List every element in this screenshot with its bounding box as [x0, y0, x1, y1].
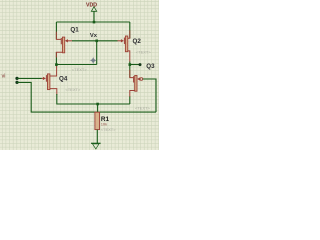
junction dot at VDD/rail [93, 21, 96, 24]
Q4 gate bar [46, 75, 47, 82]
wire: vi to Q4 gate [17, 77, 42, 79]
transistor Q1 [56, 32, 72, 58]
svg-text:vi: vi [2, 74, 6, 80]
svg-text:<TEXT>: <TEXT> [101, 127, 117, 132]
wire: R1 bottom lead [96, 130, 98, 144]
Q4 drain lead [50, 66, 57, 76]
wire: Q2 source down to Q3 drain [129, 62, 131, 78]
Q4 source lead [50, 89, 57, 95]
transistor Q2 [117, 30, 129, 61]
Q2 source lead [128, 51, 130, 62]
wire: stub to net dot [130, 64, 140, 66]
Q1 source lead [56, 52, 62, 57]
svg-text:Q4: Q4 [59, 75, 68, 82]
Q4 gate pin line [42, 77, 44, 79]
Q2 gate pin line [117, 40, 121, 42]
wire: right rail down to Q2 drain [129, 22, 131, 38]
svg-text:<TEXT>: <TEXT> [135, 106, 151, 111]
voltage probe star at Vx stem [90, 57, 97, 65]
wire: Q3 source down to bottom rail [129, 97, 131, 105]
Q1 channel bar [62, 37, 64, 53]
transistor Q4 [42, 66, 57, 95]
Q1 drain lead [56, 32, 61, 40]
wire: lower input branch [17, 82, 156, 112]
wire: top VDD rail [56, 21, 129, 23]
Q3 gate bubble [140, 78, 143, 81]
svg-text:<TEXT>: <TEXT> [136, 49, 152, 54]
wire: Q3 gate loop right/down/left [143, 79, 156, 112]
svg-text:Q1: Q1 [70, 26, 79, 33]
Q4 channel bar [48, 74, 50, 90]
wire: Vx stem down [96, 41, 98, 65]
power symbol VDD [91, 7, 96, 12]
input end dot upper [15, 77, 18, 80]
wire: Q1 source down to node A [55, 52, 57, 65]
Q1 thin bar [61, 38, 62, 44]
Q3 source lead [130, 91, 135, 98]
junction dot R1 top [96, 103, 99, 106]
svg-text:<TEXT>: <TEXT> [65, 87, 81, 92]
svg-text:<TEXT>: <TEXT> [72, 67, 88, 72]
Q2 channel bar [125, 36, 127, 52]
svg-text:VDD: VDD [86, 2, 97, 8]
input end dot lower [15, 81, 18, 84]
wire: Q4 source down and bottom node [57, 94, 130, 104]
Q3 thin bar [133, 76, 134, 82]
ground symbol [91, 143, 101, 149]
transistor Q3 [130, 70, 143, 97]
wire: VDD stem [93, 11, 95, 22]
Q3 channel bar [135, 76, 137, 92]
wire: left rail down to Q1 drain [55, 22, 57, 39]
Q2 gate bar [124, 38, 125, 45]
svg-text:Vx: Vx [90, 33, 98, 39]
Q2 gate arrow [121, 39, 124, 42]
Q1 gate arrow [65, 39, 68, 42]
resistor R1 [95, 112, 100, 129]
junction dot mid-right node [129, 63, 132, 66]
wire: R1 top lead [97, 104, 99, 112]
junction dot Vx stem [95, 40, 98, 43]
wire: mid node horizontal [56, 65, 96, 67]
Q4 gate arrow [43, 77, 46, 80]
schematic background [0, 0, 159, 150]
svg-text:Q3: Q3 [146, 63, 155, 70]
node A junction dot (Q1 source / Q4 drain / Vx stem) [55, 63, 58, 66]
Q1 gate pin line [67, 40, 72, 42]
svg-text:Q2: Q2 [133, 38, 142, 45]
svg-text:10k: 10k [101, 122, 107, 127]
Q3 drain lead [130, 70, 134, 78]
Q2 drain lead [128, 30, 130, 38]
net end dot [139, 63, 142, 66]
wire: Vx net (Q1 gate to Q2 gate) [72, 40, 118, 42]
Q3 gate arrow [137, 77, 140, 80]
